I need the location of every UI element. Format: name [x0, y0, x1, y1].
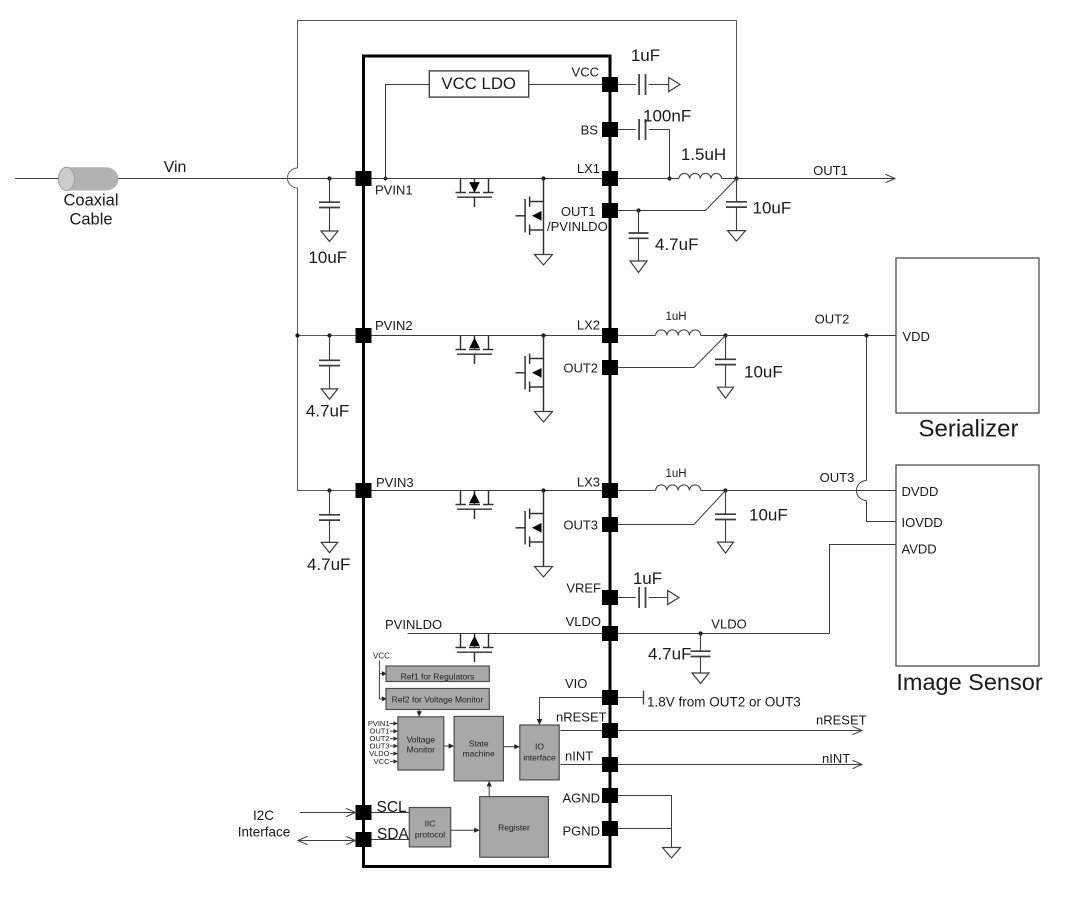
arrow to Ref2	[382, 696, 387, 701]
block IIC protocol	[409, 808, 450, 847]
wire OUT1 feedback rail top	[298, 21, 737, 179]
svg-text:Image Sensor: Image Sensor	[896, 669, 1042, 695]
transistor LDO pass	[456, 634, 494, 663]
inductor 1uH buck2	[656, 330, 701, 336]
ground 4.7uF OUT1	[630, 261, 647, 273]
arrow Ref2 to Voltage Monitor	[418, 710, 420, 713]
svg-text:SCL: SCL	[377, 799, 408, 816]
wire rail to PVIN2	[298, 335, 356, 337]
wire PGND down	[671, 829, 673, 848]
svg-text:Serializer: Serializer	[918, 416, 1018, 443]
svg-text:interface: interface	[523, 753, 556, 763]
junction OUT3 node	[723, 488, 727, 492]
svg-text:SDA: SDA	[377, 826, 410, 843]
wire PVIN1 to LX1	[372, 178, 603, 180]
wire OUT2 feedback diagonal	[618, 336, 726, 368]
junction LX1 lowside	[541, 176, 545, 180]
ground AGND PGND	[663, 848, 681, 859]
svg-text:VCC: VCC	[572, 65, 599, 80]
ground PVIN3 cap	[321, 542, 338, 552]
wire SDA to IIC	[372, 839, 410, 841]
wire PVINLDO	[408, 633, 602, 635]
ground PVIN2 cap	[321, 389, 338, 399]
capacitor 10uF OUT1	[726, 179, 747, 231]
arrow to Ref1	[382, 671, 387, 676]
wire inductor2 out	[701, 335, 726, 337]
junction OUT1 node	[734, 176, 738, 180]
transistor high-side buck2	[456, 336, 494, 365]
inductor 1.5uH	[679, 173, 722, 178]
svg-text:10uF: 10uF	[308, 248, 347, 267]
svg-text:AGND: AGND	[562, 791, 600, 806]
arrow IIC to Register	[451, 829, 475, 831]
capacitor 4.7uF OUT1	[629, 211, 649, 262]
svg-text:PVINLDO: PVINLDO	[385, 617, 442, 632]
pin VIO	[602, 690, 618, 705]
pin SCL	[356, 805, 372, 820]
svg-text:IIC: IIC	[425, 819, 436, 829]
svg-text:I2C: I2C	[253, 808, 274, 823]
wire OUT3 feedback diagonal	[618, 491, 726, 525]
svg-text:OUT2: OUT2	[563, 361, 598, 376]
wire LX3 to inductor	[618, 490, 656, 492]
capacitor 4.7uF VLDO	[691, 634, 711, 674]
wire VCC LDO to VCC pin	[529, 84, 602, 86]
arrow Monitor to State machine	[444, 745, 449, 747]
pin LX1	[602, 171, 618, 186]
svg-text:BS: BS	[581, 123, 599, 138]
wire inductor3 out	[701, 490, 726, 492]
svg-text:Ref2 for Voltage Monitor: Ref2 for Voltage Monitor	[392, 695, 484, 705]
wire VIO to IO interface	[540, 698, 603, 720]
svg-text:10uF: 10uF	[749, 506, 788, 525]
svg-text:LX3: LX3	[577, 475, 600, 490]
svg-text:OUT3: OUT3	[820, 470, 855, 485]
arrow VREF rail	[668, 591, 679, 605]
svg-text:VLDO: VLDO	[711, 617, 746, 632]
pin PVIN1	[356, 171, 372, 186]
wire LX2 to inductor	[618, 335, 656, 337]
ground low-side buck3	[535, 567, 553, 578]
pin SDA	[356, 832, 372, 847]
svg-text:VIO: VIO	[565, 676, 587, 691]
block Serializer	[896, 258, 1039, 413]
arrow SCL input	[300, 812, 356, 814]
pin AGND	[602, 788, 618, 803]
junction OUT1 4.7uF	[636, 208, 640, 212]
wire LX1 to inductor	[618, 178, 679, 180]
svg-text:LX2: LX2	[577, 318, 600, 333]
block Ref2	[386, 689, 489, 710]
wire OUT1 output	[737, 178, 896, 180]
svg-text:VCC LDO: VCC LDO	[441, 74, 516, 93]
wire PVIN2 to LX2	[372, 335, 603, 337]
block Register	[480, 797, 549, 858]
wire VLDO output	[618, 633, 830, 635]
pin VCC	[602, 77, 618, 92]
wire SCL to IIC	[372, 812, 410, 814]
svg-text:OUT2: OUT2	[815, 312, 850, 327]
transistor low-side buck2	[516, 336, 544, 412]
junction LX2 lowside	[541, 333, 545, 337]
svg-text:Register: Register	[498, 823, 530, 833]
svg-text:PVIN2: PVIN2	[375, 318, 413, 333]
svg-text:1.5uH: 1.5uH	[681, 145, 726, 164]
ground 10uF OUT2	[718, 387, 734, 398]
pin OUT1	[602, 203, 618, 218]
terminal VIO 1.8V	[643, 691, 645, 705]
wire hop over OUT3	[857, 481, 867, 501]
IC body U1	[364, 56, 611, 867]
junction Vin C1	[327, 176, 331, 180]
svg-text:10uF: 10uF	[753, 199, 792, 218]
junction BS LX1	[667, 176, 671, 180]
svg-text:VDD: VDD	[903, 329, 930, 344]
inductor 1uH buck3	[656, 485, 701, 491]
svg-text:Coaxial: Coaxial	[63, 192, 118, 210]
wire AVDD link	[830, 545, 897, 634]
arrow State machine to IO	[503, 746, 514, 748]
wire OUT2 to serializer	[726, 335, 897, 337]
junction VCC LDO tap	[384, 177, 388, 181]
capacitor 4.7uF PVIN3	[319, 491, 340, 543]
svg-text:Ref1 for Regulators: Ref1 for Regulators	[401, 672, 475, 682]
pin BS	[602, 122, 618, 137]
svg-text:DVDD: DVDD	[902, 484, 939, 499]
wire nINT out	[618, 764, 862, 766]
junction VLDO cap	[698, 631, 702, 635]
wire VIO external	[618, 697, 644, 699]
svg-text:LX1: LX1	[577, 161, 600, 176]
transistor high-side buck3	[456, 491, 494, 520]
svg-text:nINT: nINT	[822, 751, 850, 766]
ground 10uF OUT3	[718, 542, 734, 553]
wire AGND	[618, 796, 672, 829]
svg-text:nINT: nINT	[565, 749, 593, 764]
svg-text:VCC: VCC	[374, 757, 390, 766]
svg-text:4.7uF: 4.7uF	[648, 645, 691, 664]
pin VLDO	[602, 626, 618, 641]
pin PVIN2	[356, 328, 372, 343]
svg-text:VCC: VCC	[373, 652, 390, 661]
pin LX3	[602, 483, 618, 498]
junction OUT2 node	[723, 333, 727, 337]
svg-text:OUT3: OUT3	[563, 518, 598, 533]
wire IO to nRESET	[561, 730, 603, 732]
svg-text:State: State	[469, 739, 489, 749]
capacitor 100nF BS	[618, 129, 636, 131]
ground 4.7uF VLDO	[692, 673, 709, 684]
ground low-side buck1	[535, 255, 553, 266]
svg-text:1uH: 1uH	[665, 468, 686, 480]
wire IOVDD link	[867, 501, 897, 522]
svg-text:4.7uF: 4.7uF	[655, 235, 698, 254]
wire Vin input	[15, 178, 356, 180]
arrow into IO interface	[537, 719, 543, 725]
svg-text:1uF: 1uF	[631, 46, 660, 65]
svg-text:OUT1: OUT1	[561, 204, 596, 219]
block IO interface	[520, 725, 559, 780]
wire LX1 inductor out	[722, 178, 737, 180]
capacitor 4.7uF PVIN2	[319, 336, 340, 389]
wire OUT3 to image sensor	[726, 490, 897, 492]
svg-text:1uH: 1uH	[665, 311, 686, 323]
capacitor 1uF VCC	[618, 84, 636, 86]
svg-text:protocol: protocol	[415, 830, 445, 840]
svg-text:IOVDD: IOVDD	[902, 515, 943, 530]
svg-text:OUT1: OUT1	[813, 163, 848, 178]
block State machine	[454, 716, 503, 781]
svg-text:Cable: Cable	[69, 211, 112, 229]
wire VCC to refs	[378, 661, 380, 699]
arrow SDA bidir	[298, 840, 356, 842]
svg-text:nRESET: nRESET	[816, 713, 867, 728]
svg-text:PVIN1: PVIN1	[375, 183, 413, 198]
svg-text:1uF: 1uF	[633, 569, 662, 588]
capacitor 1uF VREF	[618, 597, 636, 599]
wire OUT1 feedback diagonal	[618, 179, 737, 211]
svg-text:4.7uF: 4.7uF	[307, 555, 350, 574]
svg-text:1.8V from OUT2 or OUT3: 1.8V from OUT2 or OUT3	[647, 695, 801, 710]
ground 10uF OUT1	[728, 231, 746, 242]
pin VREF	[602, 590, 618, 605]
wire hop over Vin	[288, 168, 298, 188]
svg-text:PGND: PGND	[562, 824, 600, 839]
svg-text:IO: IO	[535, 742, 544, 752]
capacitor 10uF OUT2	[715, 336, 736, 388]
junction OUT2 branch	[864, 333, 868, 337]
junction PVIN2 cap	[327, 333, 331, 337]
wire IO to nINT	[561, 764, 603, 766]
junction PVIN3 cap	[327, 488, 331, 492]
wire OUT2 down to IOVDD	[866, 336, 868, 481]
svg-text:100nF: 100nF	[643, 107, 691, 126]
block Ref1	[386, 666, 489, 682]
wire PGND	[618, 828, 672, 830]
arrow VCC rail	[669, 78, 680, 92]
wire VCC LDO input	[386, 85, 430, 179]
svg-text:VREF: VREF	[566, 581, 601, 596]
transistor low-side buck3	[516, 491, 544, 567]
ground PVIN1 cap	[321, 231, 338, 242]
pin OUT3	[602, 517, 618, 532]
coaxial cable	[66, 167, 118, 190]
svg-text:Voltage: Voltage	[407, 735, 436, 745]
wire rail to PVIN3	[298, 188, 356, 491]
pin PVIN3	[356, 483, 372, 498]
transistor low-side buck1	[516, 179, 544, 255]
wire BS to LX1	[669, 130, 671, 179]
transistor high-side buck1	[456, 179, 494, 208]
svg-text:Monitor: Monitor	[407, 745, 436, 755]
svg-text:Interface: Interface	[238, 825, 291, 840]
wire nRESET out	[618, 730, 862, 732]
block Image Sensor	[896, 465, 1039, 666]
capacitor 10uF PVIN1	[319, 179, 340, 232]
svg-text:PVIN3: PVIN3	[376, 475, 414, 490]
svg-text:4.7uF: 4.7uF	[306, 401, 349, 420]
ground low-side buck2	[535, 412, 553, 423]
pin nRESET	[602, 723, 618, 738]
svg-text:AVDD: AVDD	[902, 542, 937, 557]
pin LX2	[602, 328, 618, 343]
junction rail PVIN2	[295, 333, 299, 337]
wire PVIN3 to LX3	[372, 490, 603, 492]
block VCC LDO	[429, 71, 528, 97]
svg-text:VLDO: VLDO	[566, 614, 601, 629]
junction LX3 lowside	[541, 488, 545, 492]
block Voltage Monitor	[398, 717, 444, 770]
capacitor 10uF OUT3	[715, 491, 736, 543]
arrow Register to State machine	[488, 786, 490, 797]
pin nINT	[602, 757, 618, 772]
svg-text:nRESET: nRESET	[556, 710, 607, 725]
svg-text:Vin: Vin	[164, 159, 187, 176]
svg-text:10uF: 10uF	[744, 363, 783, 382]
pin PGND	[602, 821, 618, 836]
svg-text:machine: machine	[463, 749, 495, 759]
svg-text:/PVINLDO: /PVINLDO	[547, 219, 608, 234]
pin OUT2	[602, 360, 618, 375]
